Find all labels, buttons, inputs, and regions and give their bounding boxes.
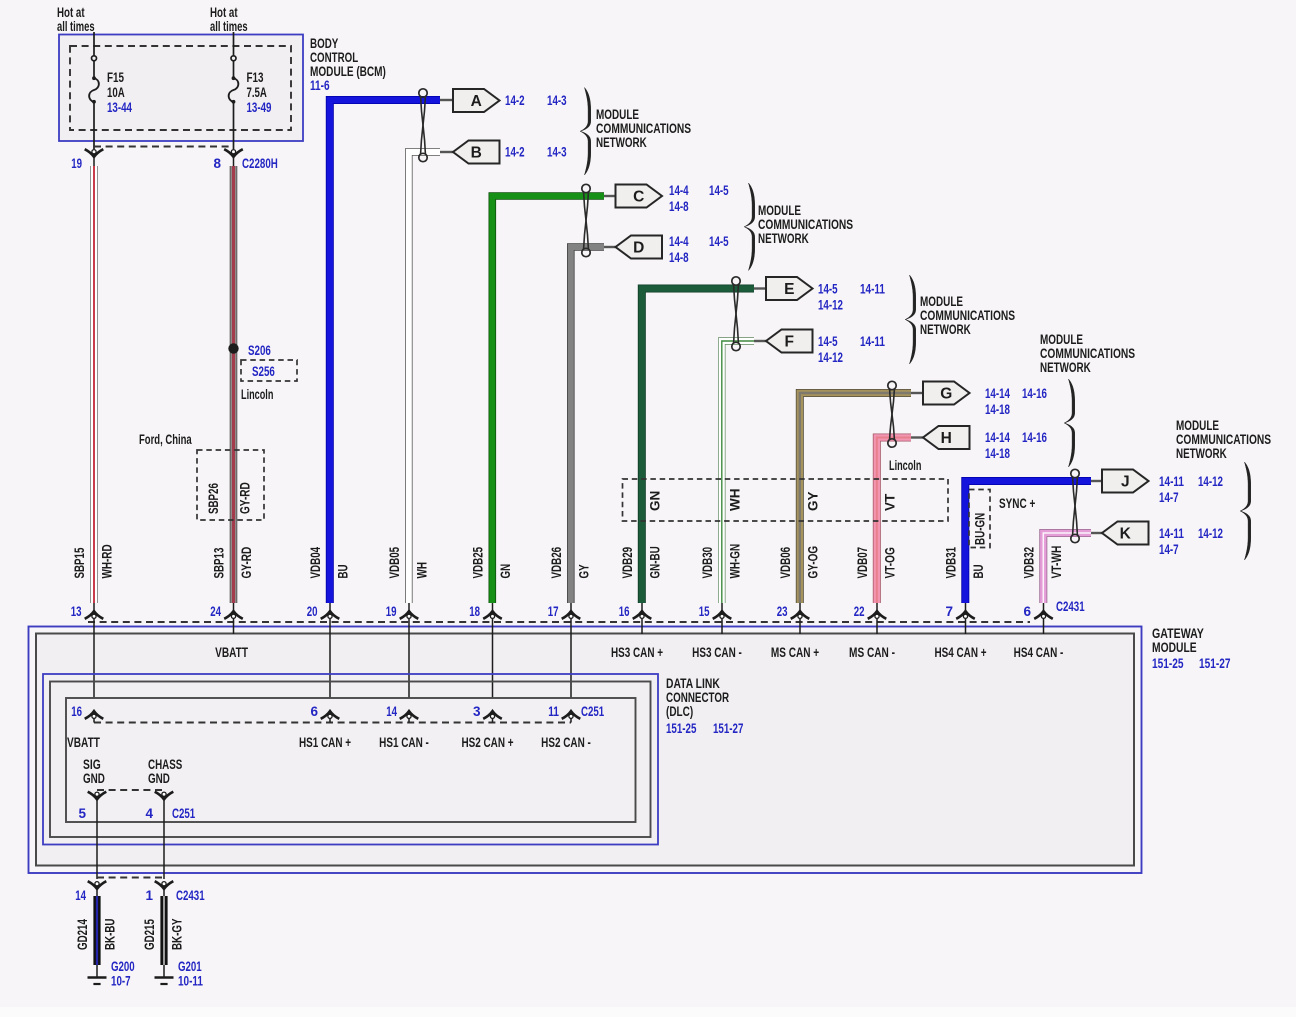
fuse F15 10A xyxy=(93,32,95,56)
lead wire to flag F xyxy=(754,340,766,342)
svg-text:14-12: 14-12 xyxy=(818,350,843,365)
svg-text:Hot at: Hot at xyxy=(210,5,238,20)
svg-text:22: 22 xyxy=(854,604,865,619)
svg-text:6: 6 xyxy=(310,704,318,719)
svg-text:10-11: 10-11 xyxy=(178,974,203,989)
internal wire VBATT pin 24 xyxy=(233,623,235,635)
DLC pin 3 xyxy=(492,711,494,723)
svg-text:11-6: 11-6 xyxy=(310,78,330,93)
svg-text:14: 14 xyxy=(75,888,86,903)
svg-text:19: 19 xyxy=(71,156,82,171)
connector flag J xyxy=(1102,470,1149,493)
svg-text:HS4 CAN +: HS4 CAN + xyxy=(934,645,986,660)
svg-text:11: 11 xyxy=(548,704,559,719)
svg-text:GND: GND xyxy=(148,771,170,786)
svg-text:24: 24 xyxy=(210,604,221,619)
connector flag F xyxy=(766,330,813,353)
svg-text:151-25: 151-25 xyxy=(1152,655,1184,671)
connector flag H xyxy=(923,426,970,449)
svg-text:14-5: 14-5 xyxy=(709,183,729,198)
svg-text:VT-WH: VT-WH xyxy=(1049,546,1064,579)
svg-text:18: 18 xyxy=(469,604,480,619)
svg-text:13-44: 13-44 xyxy=(107,100,132,115)
svg-text:SBP15: SBP15 xyxy=(72,547,87,578)
svg-text:GD214: GD214 xyxy=(75,919,90,950)
gateway pin 16 xyxy=(641,603,643,611)
svg-text:C2431: C2431 xyxy=(1056,599,1085,614)
svg-text:VBATT: VBATT xyxy=(215,645,248,660)
svg-text:VDB32: VDB32 xyxy=(1022,547,1037,579)
wire VDB32 VT-WH xyxy=(1043,533,1091,603)
svg-text:SBP26: SBP26 xyxy=(206,483,221,514)
twisted pair C/D xyxy=(582,184,590,192)
svg-text:14-12: 14-12 xyxy=(818,298,843,313)
ground wire CHASS xyxy=(163,800,165,879)
svg-text:MODULE: MODULE xyxy=(596,107,639,122)
fuse F13 7.5A xyxy=(233,32,235,56)
svg-text:J: J xyxy=(1121,473,1130,490)
twisted pair J/K xyxy=(1071,469,1079,477)
svg-text:14-12: 14-12 xyxy=(1198,474,1223,489)
wire VDB25 GN xyxy=(492,196,604,603)
svg-text:MODULE (BCM): MODULE (BCM) xyxy=(310,64,386,79)
pin 1 (C2431) xyxy=(161,885,166,890)
svg-text:15: 15 xyxy=(699,604,710,619)
svg-text:NETWORK: NETWORK xyxy=(1176,446,1227,461)
internal stub x=800 xyxy=(799,623,801,635)
svg-text:COMMUNICATIONS: COMMUNICATIONS xyxy=(1176,432,1271,447)
svg-text:Ford, China: Ford, China xyxy=(139,432,192,447)
DLC pin 6 xyxy=(329,711,331,723)
svg-text:VDB30: VDB30 xyxy=(700,547,715,579)
brace network group 2 xyxy=(744,183,754,271)
svg-text:GY-RD: GY-RD xyxy=(238,482,253,514)
connector C2280H dashed link xyxy=(94,146,234,148)
internal stub x=1043.5 xyxy=(1043,623,1045,635)
svg-text:DATA LINK: DATA LINK xyxy=(666,676,720,691)
svg-text:14-8: 14-8 xyxy=(669,250,689,265)
brace network group 1 xyxy=(580,88,590,176)
svg-text:GY: GY xyxy=(806,491,821,511)
alternate wire colors box xyxy=(623,479,949,521)
svg-text:VDB26: VDB26 xyxy=(549,547,564,579)
brace network group 4 xyxy=(1064,379,1074,467)
pin 14 (C2431) xyxy=(94,885,99,890)
svg-text:14-14: 14-14 xyxy=(985,430,1010,445)
svg-text:COMMUNICATIONS: COMMUNICATIONS xyxy=(1040,346,1135,361)
svg-text:SBP13: SBP13 xyxy=(212,547,227,578)
lead wire to flag J xyxy=(1091,480,1102,482)
BU-GN alternate color box xyxy=(969,490,990,548)
svg-text:14-16: 14-16 xyxy=(1022,386,1047,401)
gateway pin 6 xyxy=(1043,603,1045,611)
svg-text:D: D xyxy=(633,239,644,256)
svg-text:HS2 CAN +: HS2 CAN + xyxy=(461,735,513,750)
svg-text:14-11: 14-11 xyxy=(860,334,885,349)
wire VDB29 GN-BU xyxy=(642,289,754,604)
DLC pin 16 xyxy=(93,711,95,723)
svg-text:MS CAN -: MS CAN - xyxy=(849,645,895,660)
wire VDB30 WH-GN xyxy=(722,341,754,603)
svg-text:SYNC +: SYNC + xyxy=(999,496,1035,511)
svg-text:14-3: 14-3 xyxy=(547,145,567,160)
lead wire to flag K xyxy=(1091,532,1102,534)
svg-text:C251: C251 xyxy=(172,806,196,821)
svg-text:151-27: 151-27 xyxy=(713,721,743,736)
svg-text:NETWORK: NETWORK xyxy=(920,322,971,337)
svg-text:151-27: 151-27 xyxy=(1199,655,1231,671)
connector flag K xyxy=(1102,522,1149,545)
svg-text:16: 16 xyxy=(619,604,630,619)
svg-text:14-11: 14-11 xyxy=(1159,526,1184,541)
svg-text:BU-GN: BU-GN xyxy=(973,513,988,545)
svg-text:B: B xyxy=(471,144,482,161)
svg-text:Lincoln: Lincoln xyxy=(241,387,273,402)
twisted pair A/B xyxy=(419,89,427,97)
data link connector mid box xyxy=(50,682,651,838)
SBP26 GY-RD alternate circuit box xyxy=(197,450,264,520)
svg-text:14-4: 14-4 xyxy=(669,183,689,198)
svg-text:14-4: 14-4 xyxy=(669,234,689,249)
lead wire to flag H xyxy=(911,436,923,438)
lead wire to flag C xyxy=(604,195,616,197)
svg-text:14-5: 14-5 xyxy=(818,282,838,297)
brace network group 5 xyxy=(1240,462,1250,560)
gateway pin 13 xyxy=(93,603,95,611)
gateway pin 17 xyxy=(570,603,572,611)
internal wire VBATT pin 13 xyxy=(93,623,95,712)
svg-text:16: 16 xyxy=(71,704,82,719)
splice S206 xyxy=(228,343,238,353)
svg-text:BODY: BODY xyxy=(310,36,338,51)
connector flag A xyxy=(453,89,500,112)
svg-text:MODULE: MODULE xyxy=(1176,418,1219,433)
svg-text:7: 7 xyxy=(945,604,953,619)
svg-text:VDB25: VDB25 xyxy=(471,547,486,579)
lead wire to flag G xyxy=(911,392,923,394)
connector pin 19 (C2280H) xyxy=(91,153,96,158)
svg-text:MODULE: MODULE xyxy=(1040,332,1083,347)
svg-text:H: H xyxy=(941,430,952,447)
ground G201 xyxy=(155,976,174,978)
svg-text:14-7: 14-7 xyxy=(1159,490,1179,505)
svg-text:14-16: 14-16 xyxy=(1022,430,1047,445)
lead wire to flag D xyxy=(604,246,616,248)
svg-text:VT-OG: VT-OG xyxy=(883,547,898,578)
svg-text:GD215: GD215 xyxy=(142,919,157,950)
svg-text:VDB29: VDB29 xyxy=(620,547,635,579)
DLC pin 4 xyxy=(161,795,166,800)
splice S256 (Lincoln) xyxy=(241,360,297,381)
wire SBP15 WH-RD xyxy=(90,166,98,603)
svg-text:MS CAN +: MS CAN + xyxy=(771,645,819,660)
svg-text:F15: F15 xyxy=(107,70,124,85)
svg-text:C: C xyxy=(633,188,644,205)
ground pins dashed link xyxy=(97,789,164,791)
connector flag B xyxy=(453,141,500,164)
wire GD215 BK-GY xyxy=(160,896,167,965)
svg-text:8: 8 xyxy=(213,156,221,171)
svg-text:14-3: 14-3 xyxy=(547,93,567,108)
svg-text:S256: S256 xyxy=(252,364,275,379)
wire VDB04 BU xyxy=(330,100,440,603)
DLC pin 14 xyxy=(408,711,410,723)
gateway pin row dashed line xyxy=(88,621,1030,623)
svg-text:BK-GY: BK-GY xyxy=(170,919,185,951)
gateway module inner box xyxy=(36,634,1134,866)
wire VDB26 GY xyxy=(571,247,604,603)
svg-text:GY: GY xyxy=(577,564,592,578)
gateway pin 22 xyxy=(876,603,878,611)
svg-text:GN: GN xyxy=(498,564,513,579)
svg-text:Lincoln: Lincoln xyxy=(889,458,921,473)
svg-text:14-18: 14-18 xyxy=(985,446,1010,461)
svg-text:HS3 CAN +: HS3 CAN + xyxy=(611,645,663,660)
svg-text:CONTROL: CONTROL xyxy=(310,50,358,65)
svg-text:C2431: C2431 xyxy=(176,888,205,903)
svg-text:14-11: 14-11 xyxy=(860,282,885,297)
svg-text:WH: WH xyxy=(728,489,743,512)
svg-text:GN: GN xyxy=(648,491,663,511)
svg-text:CHASS: CHASS xyxy=(148,757,182,772)
lead wire to flag A xyxy=(440,99,453,101)
svg-text:HS2 CAN -: HS2 CAN - xyxy=(541,735,591,750)
connector pin 8 (C2280H) xyxy=(231,153,236,158)
svg-text:13-49: 13-49 xyxy=(247,100,272,115)
gateway pin 24 xyxy=(233,603,235,611)
internal wire x=492.5 xyxy=(492,623,494,712)
svg-text:F: F xyxy=(785,333,794,350)
svg-text:VDB06: VDB06 xyxy=(778,547,793,579)
ground G200 xyxy=(88,976,107,978)
svg-text:MODULE: MODULE xyxy=(1152,639,1197,655)
svg-text:all times: all times xyxy=(210,19,248,34)
internal stub x=965.5 xyxy=(965,623,967,635)
svg-text:20: 20 xyxy=(307,604,318,619)
svg-text:151-25: 151-25 xyxy=(666,721,697,736)
gateway pin 15 xyxy=(721,603,723,611)
svg-text:MODULE: MODULE xyxy=(758,203,801,218)
svg-text:14-7: 14-7 xyxy=(1159,542,1179,557)
svg-text:COMMUNICATIONS: COMMUNICATIONS xyxy=(920,308,1015,323)
C2431 dashed link xyxy=(97,877,164,879)
wire VDB31 BU xyxy=(965,481,1091,603)
svg-text:HS4 CAN -: HS4 CAN - xyxy=(1014,645,1064,660)
svg-text:BU: BU xyxy=(336,564,351,578)
DLC pin 11 xyxy=(570,711,572,723)
svg-text:14-5: 14-5 xyxy=(709,234,729,249)
data link connector outer box xyxy=(43,674,658,845)
svg-text:G200: G200 xyxy=(111,959,135,974)
svg-text:14-2: 14-2 xyxy=(505,145,525,160)
svg-text:VDB04: VDB04 xyxy=(308,547,323,579)
svg-text:19: 19 xyxy=(386,604,397,619)
gateway pin 23 xyxy=(799,603,801,611)
lead wire to flag E xyxy=(754,287,766,289)
gateway pin 18 xyxy=(492,603,494,611)
svg-text:WH-GN: WH-GN xyxy=(728,544,743,579)
svg-text:VT: VT xyxy=(883,493,898,511)
svg-text:COMMUNICATIONS: COMMUNICATIONS xyxy=(758,217,853,232)
svg-text:MODULE: MODULE xyxy=(920,294,963,309)
svg-text:23: 23 xyxy=(777,604,788,619)
gateway module outer box xyxy=(29,627,1142,874)
svg-text:COMMUNICATIONS: COMMUNICATIONS xyxy=(596,121,691,136)
svg-text:14: 14 xyxy=(386,704,397,719)
svg-text:G201: G201 xyxy=(178,959,202,974)
internal stub x=642 xyxy=(641,623,643,635)
wire GD214 BK-BU xyxy=(93,896,100,965)
wire SBP13 GY-RD xyxy=(230,166,238,603)
wire VDB06 GY-OG xyxy=(800,393,911,603)
brace network group 3 xyxy=(905,275,915,364)
connector flag C xyxy=(616,185,663,208)
svg-text:HS1 CAN +: HS1 CAN + xyxy=(299,735,351,750)
svg-text:HS3 CAN -: HS3 CAN - xyxy=(692,645,742,660)
svg-text:GY-OG: GY-OG xyxy=(806,546,821,579)
svg-text:VBATT: VBATT xyxy=(67,735,100,750)
svg-text:VDB05: VDB05 xyxy=(387,547,402,579)
svg-text:14-8: 14-8 xyxy=(669,199,689,214)
svg-text:K: K xyxy=(1120,525,1132,542)
svg-text:S206: S206 xyxy=(248,343,271,358)
gateway pin 19 xyxy=(408,603,410,611)
svg-text:VDB31: VDB31 xyxy=(944,547,959,579)
svg-text:GY-RD: GY-RD xyxy=(239,547,254,579)
BCM fuse box xyxy=(59,35,303,142)
svg-text:17: 17 xyxy=(548,604,559,619)
internal wire x=330 xyxy=(329,623,331,712)
svg-text:13: 13 xyxy=(71,604,82,619)
connector flag D xyxy=(616,236,663,259)
svg-text:14-2: 14-2 xyxy=(505,93,525,108)
svg-text:5: 5 xyxy=(78,806,86,821)
svg-text:14-18: 14-18 xyxy=(985,402,1010,417)
svg-text:VDB07: VDB07 xyxy=(855,547,870,579)
svg-text:1: 1 xyxy=(145,888,153,903)
gateway pin 7 xyxy=(965,603,967,611)
svg-text:4: 4 xyxy=(145,806,153,821)
svg-text:NETWORK: NETWORK xyxy=(758,231,809,246)
svg-text:WH: WH xyxy=(415,562,430,579)
svg-text:F13: F13 xyxy=(247,70,264,85)
svg-text:(DLC): (DLC) xyxy=(666,704,693,719)
svg-text:14-14: 14-14 xyxy=(985,386,1010,401)
lead wire to flag B xyxy=(440,151,453,153)
internal wire x=571 xyxy=(570,623,572,712)
svg-text:C251: C251 xyxy=(581,704,605,719)
connector flag E xyxy=(766,277,813,300)
svg-text:NETWORK: NETWORK xyxy=(596,135,647,150)
data link connector inner box xyxy=(66,698,636,822)
twisted pair E/F xyxy=(732,277,740,285)
DLC pin row dashed line xyxy=(94,722,571,724)
svg-text:SIG: SIG xyxy=(83,757,101,772)
wire VDB07 VT-OG xyxy=(877,438,911,604)
DLC pin 5 xyxy=(94,795,99,800)
svg-text:A: A xyxy=(471,93,482,110)
svg-text:BU: BU xyxy=(971,564,986,578)
internal stub x=722 xyxy=(721,623,723,635)
connector flag G xyxy=(923,382,970,405)
svg-text:WH-RD: WH-RD xyxy=(100,544,115,578)
svg-text:6: 6 xyxy=(1023,604,1031,619)
wire VDB05 WH xyxy=(409,152,440,603)
svg-text:NETWORK: NETWORK xyxy=(1040,360,1091,375)
svg-text:14-5: 14-5 xyxy=(818,334,838,349)
svg-text:all times: all times xyxy=(57,19,95,34)
svg-text:HS1 CAN -: HS1 CAN - xyxy=(379,735,429,750)
gateway pin 20 xyxy=(329,603,331,611)
ground wire SIG xyxy=(96,800,98,879)
svg-text:C2280H: C2280H xyxy=(242,156,278,171)
svg-text:7.5A: 7.5A xyxy=(247,85,268,100)
svg-text:GND: GND xyxy=(83,771,105,786)
twisted pair G/H xyxy=(888,381,896,389)
svg-text:10-7: 10-7 xyxy=(111,974,131,989)
svg-text:G: G xyxy=(940,385,952,402)
svg-text:Hot at: Hot at xyxy=(57,5,85,20)
svg-text:GN-BU: GN-BU xyxy=(648,546,663,578)
svg-text:CONNECTOR: CONNECTOR xyxy=(666,690,729,705)
svg-text:10A: 10A xyxy=(107,85,125,100)
svg-text:3: 3 xyxy=(473,704,481,719)
svg-text:14-12: 14-12 xyxy=(1198,526,1223,541)
svg-text:14-11: 14-11 xyxy=(1159,474,1184,489)
internal wire x=409 xyxy=(408,623,410,712)
internal stub x=877 xyxy=(876,623,878,635)
svg-text:E: E xyxy=(784,281,794,298)
svg-text:BK-BU: BK-BU xyxy=(103,919,118,950)
